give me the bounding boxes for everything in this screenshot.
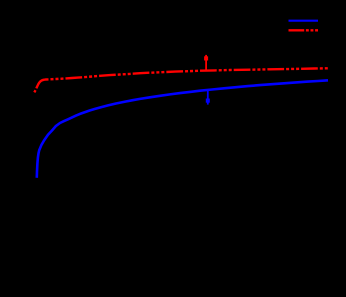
marker red point (204, 56, 208, 60)
curve blue (solid) (37, 80, 328, 178)
legend line red (289, 29, 319, 31)
legend line blue (289, 20, 319, 22)
error bar red (205, 55, 207, 71)
marker blue point (206, 99, 210, 103)
curve red (dashed) (34, 68, 328, 92)
error bar blue (207, 90, 209, 105)
